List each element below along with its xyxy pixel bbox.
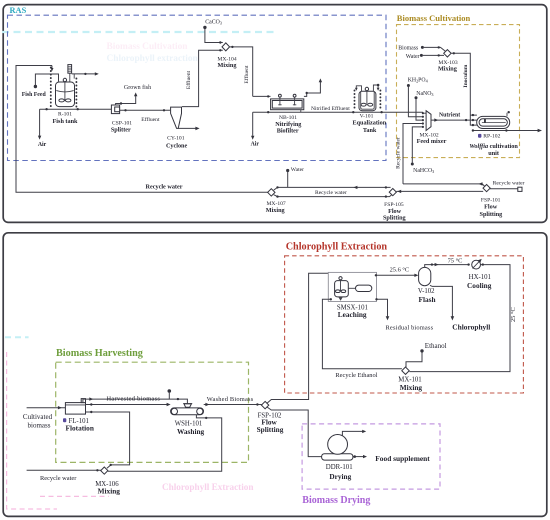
leaching unit SMSX-101 xyxy=(328,272,376,301)
svg-text:Biomass Cultivation: Biomass Cultivation xyxy=(107,42,189,52)
svg-text:DDR-101: DDR-101 xyxy=(326,464,353,471)
dryer DDR-101 xyxy=(322,454,353,460)
svg-text:CSP-101: CSP-101 xyxy=(112,120,132,126)
pond RP-102 wolffia cultivation unit xyxy=(477,116,510,128)
stream Air (fish tank) xyxy=(39,109,41,136)
wire: FSP-102 upper branch to leaching xyxy=(267,273,331,403)
svg-text:25.6 °C: 25.6 °C xyxy=(390,266,410,273)
svg-text:Air: Air xyxy=(38,142,47,148)
stream Food supplement xyxy=(353,456,364,458)
svg-text:Drying: Drying xyxy=(329,472,351,481)
svg-text:Effluent: Effluent xyxy=(185,70,192,89)
svg-text:Cyclone: Cyclone xyxy=(166,143,188,150)
cyclone CY-101 xyxy=(171,107,182,128)
svg-text:Chlorophyll Extraction: Chlorophyll Extraction xyxy=(162,482,253,492)
wire: MX-106 outlet to washer xyxy=(108,415,222,471)
wire: pond outlet xyxy=(473,130,539,132)
wire: upper line MX-107 to FSP-105 xyxy=(274,187,391,190)
svg-text:V-101: V-101 xyxy=(360,113,374,119)
svg-text:Biomass Drying: Biomass Drying xyxy=(302,495,370,506)
fish tank R-101 jacket dots xyxy=(50,68,52,109)
mixer MX-101 xyxy=(402,367,409,374)
RP-102 labels with icon xyxy=(478,134,481,138)
mixer MX-104 xyxy=(222,43,230,51)
svg-text:Nutrient: Nutrient xyxy=(439,112,460,118)
wire: bottom long line to feed mixer xyxy=(253,111,423,113)
svg-text:Water: Water xyxy=(291,167,304,173)
svg-text:Splitting: Splitting xyxy=(257,425,284,434)
svg-text:unit: unit xyxy=(488,150,500,157)
svg-text:25 °C: 25 °C xyxy=(510,307,517,322)
washer WSH-101 conveyor xyxy=(171,408,204,415)
svg-text:RAS: RAS xyxy=(10,6,27,15)
svg-text:NB-101: NB-101 xyxy=(279,115,297,121)
wire: MX-104 outlet down to biofilter xyxy=(230,47,253,97)
svg-text:Chlorophyll Extraction: Chlorophyll Extraction xyxy=(286,242,388,253)
svg-text:CaCO3: CaCO3 xyxy=(205,19,222,25)
svg-text:Nitrified Effluent: Nitrified Effluent xyxy=(311,105,350,112)
stream Chlorophyll xyxy=(430,285,452,316)
svg-text:CY-101: CY-101 xyxy=(167,135,185,141)
svg-text:Recycle water: Recycle water xyxy=(40,475,77,482)
stream Grown fish xyxy=(116,96,136,105)
svg-text:Mixing: Mixing xyxy=(266,207,286,214)
svg-text:R-101: R-101 xyxy=(58,112,72,118)
vessel R-101 fish tank xyxy=(56,82,75,107)
wire: cyclone overflow riser to MX-104 xyxy=(182,50,223,106)
wire: washed biomass to FSP-102 xyxy=(204,404,262,406)
Biomass Cultivation dashed box xyxy=(397,25,520,158)
svg-text:Fish tank: Fish tank xyxy=(53,118,78,125)
wire: fish tank bottom outlet xyxy=(40,108,112,110)
stream Residual biomass xyxy=(377,299,388,316)
wire: cooler outlet down right side to MX-101 xyxy=(409,265,510,372)
svg-text:Recycle water: Recycle water xyxy=(146,184,183,191)
stream Fish Feed xyxy=(34,85,37,88)
svg-text:Chlorophyll extraction: Chlorophyll extraction xyxy=(107,54,199,64)
Chlorophyll Extraction dashed box xyxy=(285,256,524,393)
stream source above washer xyxy=(168,389,172,393)
wire: FSP-101 to recycle water port xyxy=(490,188,518,190)
svg-text:Mixing: Mixing xyxy=(400,383,423,392)
wire: V-101 top left pipe xyxy=(356,86,361,92)
R-101 exhaust stack xyxy=(68,65,72,74)
svg-text:Biofilter: Biofilter xyxy=(277,128,299,135)
wire: lower line MX-107 to FSP-105 xyxy=(274,195,392,197)
svg-text:Cultivated: Cultivated xyxy=(23,413,53,421)
Biomass Drying dashed box xyxy=(302,424,440,489)
svg-text:biomass: biomass xyxy=(28,421,51,429)
wire: inoculum line to pond xyxy=(451,53,477,125)
stream Air (biofilter) xyxy=(252,112,254,136)
svg-text:Splitter: Splitter xyxy=(111,126,131,133)
ghost cyan dash fragment bottom panel xyxy=(5,336,29,338)
wire: FSP-101 upper branch to recycle riser xyxy=(403,184,485,186)
wire: cyclone underflow xyxy=(178,127,196,129)
svg-text:Mixing: Mixing xyxy=(218,62,238,69)
svg-text:Washed Biomass: Washed Biomass xyxy=(207,396,254,403)
wire: drop into fish tank jacket xyxy=(51,66,53,69)
svg-text:Equalization: Equalization xyxy=(352,120,386,127)
svg-text:Recycle water: Recycle water xyxy=(493,181,525,187)
svg-text:RP-102: RP-102 xyxy=(483,134,500,140)
wire: biofilter vent xyxy=(304,82,321,97)
svg-text:Flash: Flash xyxy=(418,295,435,304)
svg-text:75 °C: 75 °C xyxy=(448,257,463,264)
svg-text:Splitting: Splitting xyxy=(383,215,407,222)
splitter FSP-101 xyxy=(483,185,490,192)
wire: R-101 exhaust line xyxy=(72,73,96,75)
wire: nutrient line to pond xyxy=(431,119,477,121)
svg-text:Effluent: Effluent xyxy=(141,116,160,123)
svg-text:NaNO3: NaNO3 xyxy=(416,91,433,97)
stream Recycle water (bottom) xyxy=(27,469,101,471)
svg-text:Cooling: Cooling xyxy=(467,281,492,290)
flotation FL-101 xyxy=(65,403,85,415)
svg-text:Biomass: Biomass xyxy=(398,46,419,52)
mixer MX-103 xyxy=(444,50,451,57)
V-101 jacket dots xyxy=(354,91,356,111)
wire: effluent to cyclone xyxy=(120,109,171,111)
svg-text:Feed mixer: Feed mixer xyxy=(417,138,447,145)
feed mixer MX-102 xyxy=(423,112,426,113)
stream Ethanol xyxy=(420,349,423,352)
svg-text:Water: Water xyxy=(406,54,420,60)
svg-text:Tank: Tank xyxy=(363,127,377,134)
svg-text:MX-107: MX-107 xyxy=(266,201,285,207)
wire: recycle water left riser and return line xyxy=(16,66,268,193)
wire: belt feed line xyxy=(86,404,168,406)
recycle water port square xyxy=(518,187,522,191)
Biomass Harvesting dashed box xyxy=(56,362,249,462)
ghost cyan dashed line top panel xyxy=(2,31,278,33)
mixer MX-106 xyxy=(101,467,108,474)
svg-text:Mixing: Mixing xyxy=(438,65,458,72)
svg-text:Fish Feed: Fish Feed xyxy=(22,92,47,98)
svg-text:Leaching: Leaching xyxy=(338,310,367,319)
splitter FSP-105 xyxy=(389,189,396,196)
RAS dashed box xyxy=(8,15,387,160)
svg-text:Mixing: Mixing xyxy=(98,486,121,495)
wire: FSP-102 lower branch to dryer xyxy=(267,407,322,457)
svg-text:KH2PO4: KH2PO4 xyxy=(408,77,429,83)
wire: leaching outlet to flash xyxy=(377,274,415,276)
top panel frame xyxy=(3,5,547,223)
svg-text:Washing: Washing xyxy=(177,427,205,436)
wire: biofilter inlet xyxy=(253,95,271,97)
svg-text:Inoculum: Inoculum xyxy=(463,64,469,87)
mixer MX-107 xyxy=(268,189,275,196)
biofilter NB-101 xyxy=(271,99,304,110)
svg-text:Residual biomass: Residual biomass xyxy=(386,325,434,332)
svg-text:Recycle water: Recycle water xyxy=(315,190,347,196)
svg-text:Air: Air xyxy=(251,141,260,147)
ghost pink dashed box fragments xyxy=(7,352,57,509)
svg-text:Harvested biomass: Harvested biomass xyxy=(107,396,161,403)
wire: FL-101 lower outlet to MX-106 xyxy=(86,412,130,468)
svg-text:NaHCO3: NaHCO3 xyxy=(413,168,434,174)
wire: V-101 top right pipe xyxy=(373,85,378,91)
svg-text:Chlorophyll: Chlorophyll xyxy=(452,323,490,332)
svg-text:Effluent: Effluent xyxy=(243,65,250,84)
flash vessel V-102 xyxy=(419,267,431,285)
svg-text:Recycle Ethanol: Recycle Ethanol xyxy=(335,372,377,379)
wire: leaching bottom to MX-101 (recycle ethanol) xyxy=(322,299,402,369)
wire: recycle water riser to feed mixer xyxy=(403,124,423,184)
wire: flash top to cooler xyxy=(425,265,469,268)
stream NaHCO3 xyxy=(411,163,414,166)
vessel V-101 equalization tank xyxy=(359,91,376,110)
splitter FSP-102 xyxy=(261,401,268,408)
svg-text:Food supplement: Food supplement xyxy=(375,454,430,463)
wire: dryer exhaust xyxy=(342,431,362,435)
svg-text:Recycle water: Recycle water xyxy=(395,137,401,169)
svg-text:Flow: Flow xyxy=(484,203,498,210)
svg-text:Flotation: Flotation xyxy=(66,423,94,432)
wire: harvested biomass line to washer hopper xyxy=(83,399,187,404)
splitter CSP-101 xyxy=(111,105,119,114)
cooler HX-101 xyxy=(472,260,481,269)
svg-text:Biomass Harvesting: Biomass Harvesting xyxy=(56,348,143,359)
wire: FSP-105 to FSP-101 xyxy=(396,190,483,192)
svg-text:Grown fish: Grown fish xyxy=(124,84,151,91)
stream Water (MX-107) xyxy=(286,169,289,172)
bottom panel frame xyxy=(3,233,547,517)
stream CaCO3 xyxy=(203,26,206,29)
svg-text:Ethanol: Ethanol xyxy=(425,342,447,350)
svg-text:Splitting: Splitting xyxy=(480,211,504,218)
svg-text:Biomass Cultivation: Biomass Cultivation xyxy=(397,13,471,23)
